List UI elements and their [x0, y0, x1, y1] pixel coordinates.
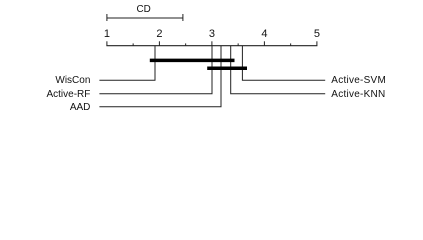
- clique bar 2: Active-RF, AAD, Active-KNN, Active-SVM: [207, 66, 247, 70]
- Active-KNN rank line (rank 3.36): [231, 46, 326, 94]
- svg-text:3: 3: [209, 28, 215, 40]
- svg-text:2: 2: [156, 28, 162, 40]
- WisCon rank line (rank 1.92): [99, 46, 155, 80]
- Active-SVM rank line (rank 3.58): [242, 46, 325, 80]
- svg-text:AAD: AAD: [70, 102, 91, 113]
- axis line: [106, 45, 317, 47]
- CD interval bracket: [107, 14, 183, 21]
- svg-text:Active-RF: Active-RF: [46, 89, 90, 100]
- svg-text:5: 5: [314, 28, 320, 40]
- clique bar 1: WisCon, Active-RF, AAD, Active-KNN: [150, 59, 235, 63]
- svg-text:WisCon: WisCon: [55, 75, 90, 86]
- svg-text:4: 4: [261, 28, 267, 40]
- axis major ticks: [107, 41, 317, 45]
- axis minor ticks: [133, 43, 291, 45]
- svg-text:CD: CD: [136, 4, 150, 15]
- Active-RF rank line (rank 3.00): [99, 46, 212, 94]
- svg-text:Active-SVM: Active-SVM: [331, 75, 386, 86]
- AAD rank line (rank 3.17): [99, 46, 221, 107]
- svg-text:1: 1: [104, 28, 110, 40]
- svg-text:Active-KNN: Active-KNN: [331, 89, 385, 100]
